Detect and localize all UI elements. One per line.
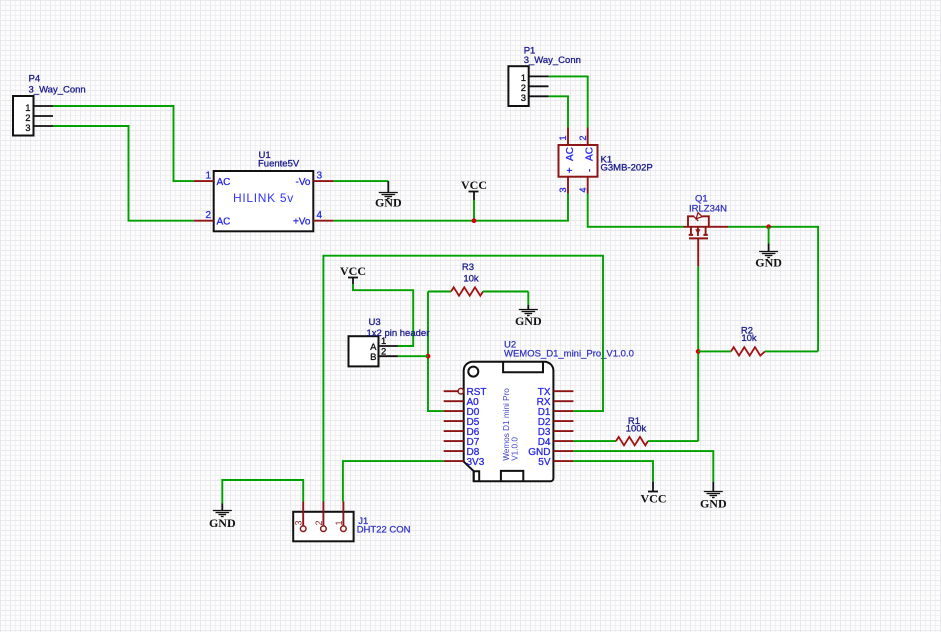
wire Q1 drain to right rail [728,227,818,352]
svg-text:2: 2 [314,520,324,525]
wire P4 pin1 to U1 pin1 [53,106,194,181]
svg-text:3: 3 [558,187,568,192]
svg-text:GND: GND [755,256,782,270]
wire U2 GND pin to ground [573,451,713,482]
ground GND bottom right [700,482,727,511]
svg-text:U3: U3 [369,317,381,328]
svg-text:+Vo: +Vo [293,217,311,228]
svg-text:4: 4 [578,187,588,192]
svg-text:10k: 10k [741,333,757,344]
power VCC bottom [641,481,667,505]
svg-text:2: 2 [578,135,588,140]
pin header U3 [349,317,430,366]
svg-text:-Vo: -Vo [295,177,310,188]
svg-text:VCC: VCC [641,492,667,506]
svg-text:AC: AC [565,147,576,161]
wire P1 pin3 to K1 pin1 [549,96,569,127]
svg-text:IRLZ34N: IRLZ34N [689,204,727,215]
power VCC above U3 [340,264,366,284]
connector P1 [508,45,581,106]
resistor R3 10k [428,262,528,296]
wire Q1 source down to R1 row [697,266,699,441]
svg-text:5V: 5V [538,457,551,468]
svg-text:3_Way_Conn: 3_Way_Conn [29,85,86,96]
wire J1 pin3 to GND [222,480,303,504]
svg-text:100k: 100k [626,424,647,435]
wire U2 5V pin to VCC [573,461,653,481]
resistor R2 10k [698,325,818,355]
wire U3 pinB to junction [398,355,428,357]
svg-text:1: 1 [205,171,211,182]
wire U1 pin3 to GND [334,180,389,182]
ground GND near U1 [375,181,402,209]
relay K1 G3MB-202P [558,128,653,194]
svg-text:GND: GND [209,516,236,530]
wire junction to GND [768,227,770,244]
svg-text:2: 2 [381,346,386,357]
svg-text:WEMOS_D1_mini_Pro_V1.0.0: WEMOS_D1_mini_Pro_V1.0.0 [504,349,634,360]
svg-text:3: 3 [294,520,304,525]
wire P4 pin3 to U1 pin2 [53,126,194,221]
svg-text:1: 1 [334,520,344,525]
connector P4 [13,74,86,136]
power VCC tap on +Vo net [461,178,487,221]
svg-text:VCC: VCC [461,178,487,192]
svg-text:3: 3 [25,123,30,134]
svg-text:+: + [565,167,576,173]
connector J1 DHT22 [293,502,410,542]
svg-text:DHT22 CON: DHT22 CON [357,525,411,536]
ground GND right of R3 [515,292,542,329]
wire VCC to U3 pin1 [353,284,413,346]
svg-text:3: 3 [521,93,526,104]
ground GND right of Q1 [755,244,782,270]
svg-text:HILINK 5v: HILINK 5v [233,191,294,205]
svg-text:10k: 10k [463,274,479,285]
svg-text:3_Way_Conn: 3_Way_Conn [524,55,581,66]
svg-text:AC: AC [217,217,231,228]
wire P1 pin1 to K1 pin2 [549,76,588,127]
module U2 WEMOS D1 mini Pro [444,340,634,482]
junction on +Vo net at VCC [472,218,477,223]
svg-text:G3MB-202P: G3MB-202P [601,163,653,174]
svg-text:R3: R3 [462,262,474,273]
svg-text:VCC: VCC [340,264,366,278]
wire K1 pin4 to Q1 gate [588,194,684,227]
transistor Q1 IRLZ34N [684,194,729,267]
svg-text:GND: GND [700,497,727,511]
svg-text:4: 4 [317,210,323,221]
svg-text:GND: GND [515,314,542,328]
ground GND bottom left [209,504,236,531]
svg-text:AC: AC [217,177,231,188]
svg-text:1x2 pin header: 1x2 pin header [367,328,430,339]
wire 3V3 to J1 pin1 [343,461,444,501]
wire D1 to J1 pin2 [323,256,603,502]
svg-text:GND: GND [375,196,402,210]
svg-text:2: 2 [205,210,211,221]
svg-text:3: 3 [317,171,323,182]
svg-text:V1.0.0: V1.0.0 [511,437,520,461]
svg-text:-: - [584,169,595,172]
wire R3 left lead down through junction to D0 [428,292,444,412]
svg-text:P4: P4 [29,74,41,85]
svg-text:1: 1 [558,135,568,140]
svg-text:Fuente5V: Fuente5V [258,159,300,170]
wire U1 pin4 (+Vo) to K1 pin3 [334,194,568,221]
junction at R2 left [696,349,701,354]
junction U3 pinB [426,354,431,359]
svg-text:AC: AC [584,147,595,161]
svg-text:B: B [370,352,376,363]
svg-text:3V3: 3V3 [467,457,485,468]
power supply U1 HILINK [194,150,334,231]
resistor R1 100k [573,416,698,445]
junction at GND tap [766,224,771,229]
